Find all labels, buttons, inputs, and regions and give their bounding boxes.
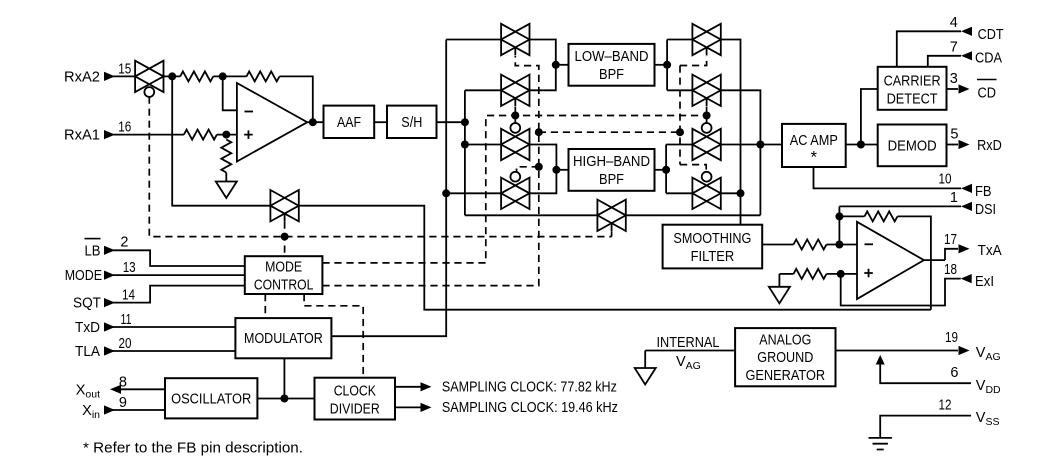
resistor R2 (op-amp U1 feedback) bbox=[247, 71, 280, 81]
wire loopback TxA output to RxA node bbox=[299, 206, 931, 310]
wire CDT (pin 4) bbox=[897, 31, 961, 67]
node SW3-in junction dot bbox=[461, 141, 469, 149]
svg-text:14: 14 bbox=[122, 288, 135, 304]
node HBin junction dot bbox=[552, 166, 560, 174]
wire R7 to U2 plus bbox=[827, 273, 858, 275]
ground G3 stem bbox=[644, 351, 646, 369]
wire to SW4 input bbox=[446, 192, 501, 194]
wire VDD (pin 6) bbox=[880, 362, 971, 383]
wire Xout (pin 8) bbox=[121, 388, 165, 390]
switch SWB (analog loopback) bbox=[270, 190, 298, 221]
pin MODE arrow (pin 13) bbox=[104, 271, 115, 280]
wire OSCILLATOR to CLOCK DIVIDER bbox=[257, 398, 314, 400]
pin Xout arrow bbox=[110, 385, 121, 394]
dashed wire control bus 2: MODE CONTROL to SW1/SW4/SW5/SW8 bbox=[322, 56, 538, 286]
ground G2 bbox=[769, 287, 790, 304]
pin RxD arrow bbox=[959, 140, 970, 149]
node U2minus junction dot bbox=[835, 241, 843, 249]
wire R4 to ground bbox=[225, 173, 227, 182]
wire Xin input bbox=[104, 409, 165, 411]
wire sampling clock 1 bbox=[395, 386, 421, 388]
node U1out junction dot bbox=[309, 118, 317, 126]
svg-text:INTERNAL: INTERNAL bbox=[657, 335, 720, 351]
svg-text:19: 19 bbox=[945, 330, 958, 346]
pin LB arrow (pin 2) bbox=[104, 246, 115, 255]
switch SW8 bbox=[692, 172, 720, 209]
node LBin junction dot bbox=[552, 61, 560, 69]
svg-text:CONTROL: CONTROL bbox=[254, 278, 314, 294]
svg-text:GENERATOR: GENERATOR bbox=[745, 368, 825, 384]
pin TxA arrow bbox=[959, 244, 970, 253]
wire DSI node down to U2 inverting input bbox=[838, 206, 840, 244]
switch SW7 bbox=[692, 123, 720, 160]
dashed wire SWA control to mode-control bus bbox=[149, 97, 611, 237]
svg-text:15: 15 bbox=[118, 62, 131, 78]
svg-text:7: 7 bbox=[950, 40, 958, 56]
node U2fb junction dot bbox=[835, 212, 843, 220]
svg-text:CDA: CDA bbox=[975, 51, 1002, 67]
wire LOW-BAND output node bbox=[655, 64, 668, 66]
switch SW9 (BPF bypass) bbox=[597, 200, 625, 231]
dashed branch bus2 east bbox=[539, 131, 680, 133]
wire CD (pin 3) bbox=[947, 88, 959, 90]
svg-text:20: 20 bbox=[119, 336, 132, 352]
dashed wire SW9 control stub bbox=[611, 231, 613, 236]
overline CD bbox=[977, 79, 997, 81]
wire bypass S/H to SW9 bbox=[465, 214, 598, 216]
dashed branch to SW8 bbox=[680, 165, 706, 172]
svg-text:DETECT: DETECT bbox=[887, 92, 938, 108]
node LBout junction dot bbox=[663, 61, 671, 69]
wire to SW3 input bbox=[465, 144, 501, 146]
svg-text:17: 17 bbox=[944, 232, 957, 248]
ground G4 (earth) bbox=[869, 438, 892, 450]
wire vertical x=446.2 (MODULATOR up to SW1 input, SW4 input) bbox=[331, 40, 446, 337]
node HBout junction dot bbox=[662, 166, 670, 174]
svg-text:DSI: DSI bbox=[975, 202, 996, 218]
svg-text:TLA: TLA bbox=[75, 344, 100, 360]
svg-text:DEMOD: DEMOD bbox=[888, 138, 937, 154]
wire up to CARRIER DETECT bbox=[861, 89, 878, 145]
op-amp U2 bbox=[857, 222, 924, 299]
wire LB input bbox=[104, 250, 245, 266]
svg-text:3: 3 bbox=[950, 71, 958, 87]
wire HBout to SW7/SW8 inputs bbox=[666, 145, 692, 194]
wire SW8 output bbox=[721, 192, 741, 194]
box MODULATOR bbox=[235, 318, 331, 358]
VDD up arrow bbox=[876, 355, 885, 365]
wire into LOW-BAND BPF bbox=[556, 64, 569, 66]
dashed wire MODE CONTROL to MODULATOR bbox=[264, 294, 266, 318]
svg-text:TxA: TxA bbox=[978, 243, 1002, 259]
node demod-in junction dot bbox=[857, 141, 865, 149]
node osc junction dot bbox=[280, 395, 288, 403]
svg-text:ANALOG: ANALOG bbox=[759, 333, 811, 349]
dashed stem SW2/SW3 bbox=[514, 107, 516, 125]
wire vertical x=464.9 (S/H node to SW2 input, SW3 input, bypass) bbox=[464, 90, 466, 215]
svg-text:RxD: RxD bbox=[977, 138, 1002, 154]
resistor R5 bbox=[794, 240, 827, 250]
svg-text:CDT: CDT bbox=[978, 27, 1004, 43]
dashed wire MODE CONTROL to CLOCK DIVIDER bbox=[304, 294, 363, 378]
svg-text:SAMPLING CLOCK: 77.82 kHz: SAMPLING CLOCK: 77.82 kHz bbox=[442, 380, 617, 396]
arrow sampling clock 2 bbox=[421, 403, 432, 412]
svg-text:12: 12 bbox=[939, 398, 952, 414]
svg-text:FB: FB bbox=[975, 184, 992, 200]
node SW8out junction dot bbox=[737, 189, 745, 197]
wire SW1 output to LOW-BAND input node bbox=[530, 40, 556, 91]
wire SW7 output to AC AMP bbox=[721, 144, 782, 146]
pin SQT arrow (pin 14) bbox=[104, 298, 115, 307]
dashed stem SW6/SW7 bbox=[706, 107, 708, 125]
dashed branch to SW5 bbox=[680, 56, 707, 66]
node SWB control dot bbox=[281, 233, 289, 241]
dashed branch to SW4 bbox=[517, 167, 539, 172]
node SW4-in junction dot bbox=[442, 189, 450, 197]
overline LB bbox=[85, 238, 101, 240]
svg-text:18: 18 bbox=[944, 262, 957, 278]
wire into HIGH-BAND BPF bbox=[556, 169, 568, 171]
svg-text:AC AMP: AC AMP bbox=[790, 133, 838, 149]
svg-text:GROUND: GROUND bbox=[757, 350, 813, 366]
dashed wire MODE CONTROL top / SWB control bbox=[284, 222, 286, 257]
svg-text:8: 8 bbox=[119, 374, 127, 390]
wire HIGH-BAND output node bbox=[655, 169, 667, 171]
wire sampling clock 2 bbox=[395, 406, 421, 408]
pin RxA1 arrow (pin 16) bbox=[104, 130, 115, 139]
svg-text:13: 13 bbox=[123, 260, 136, 276]
svg-text:CARRIER: CARRIER bbox=[884, 74, 941, 90]
svg-text:LB: LB bbox=[85, 243, 101, 259]
node SW2/SW3 control dot bbox=[511, 112, 519, 120]
svg-text:DIVIDER: DIVIDER bbox=[330, 402, 380, 418]
pin CD arrow bbox=[959, 84, 970, 93]
pin CDA arrow bbox=[961, 51, 972, 60]
svg-text:SQT: SQT bbox=[73, 296, 101, 312]
wire R2 to U1 output bbox=[280, 76, 313, 122]
svg-text:*: * bbox=[811, 149, 818, 167]
wire internal VAG to generator bbox=[645, 350, 735, 352]
wire feedback branch bbox=[839, 215, 864, 217]
ground G1 bbox=[216, 182, 237, 199]
svg-text:BPF: BPF bbox=[599, 172, 624, 188]
box S/H bbox=[387, 106, 437, 138]
svg-text:SMOOTHING: SMOOTHING bbox=[673, 231, 751, 247]
dashed control lines bbox=[149, 56, 706, 378]
box OSCILLATOR bbox=[165, 378, 257, 418]
node ACin junction dot bbox=[756, 141, 764, 149]
box MODE CONTROL bbox=[245, 256, 323, 294]
pin RxA2 arrow (pin 15) bbox=[104, 72, 115, 81]
svg-text:CD: CD bbox=[978, 86, 997, 102]
svg-text:4: 4 bbox=[950, 15, 958, 31]
svg-text:FILTER: FILTER bbox=[691, 249, 735, 265]
wire SWB to RxA2 node bbox=[172, 76, 270, 205]
wire AC AMP to DEMOD bbox=[846, 144, 878, 146]
node SW4 branch dot bbox=[535, 163, 543, 171]
svg-text:MODULATOR: MODULATOR bbox=[244, 331, 323, 347]
node SW5/SW8 control dot bbox=[676, 128, 684, 136]
wire ExI (pin 18) bbox=[841, 274, 961, 306]
wire U2 output bbox=[924, 259, 945, 261]
wire TxA (pin 17) bbox=[945, 249, 958, 260]
switch SW1 bbox=[501, 24, 529, 55]
svg-text:2: 2 bbox=[120, 234, 128, 250]
pin FB arrow bbox=[961, 184, 972, 193]
svg-text:RxA2: RxA2 bbox=[64, 69, 100, 85]
dashed vertical SW5/SW8 control bbox=[679, 66, 681, 165]
pin Xin arrow (pin 9) bbox=[104, 405, 115, 414]
wire LBout to SW5/SW6 inputs bbox=[667, 40, 692, 91]
svg-text:RxA1: RxA1 bbox=[64, 128, 100, 144]
wire node B down to U1 inverting input bbox=[223, 76, 237, 110]
dashed-net junction dots bbox=[281, 112, 711, 241]
pin CDT arrow bbox=[961, 27, 972, 36]
dashed wire control bus 1: MODE CONTROL to SW2/SW3/SW6/SW7 bbox=[322, 116, 706, 263]
box LOW-BAND BPF bbox=[569, 44, 655, 86]
box HIGH-BAND BPF bbox=[569, 149, 655, 191]
wire SW9 output to AC AMP line bbox=[626, 214, 761, 216]
wire R1 to node B bbox=[213, 75, 246, 77]
svg-text:5: 5 bbox=[950, 127, 958, 143]
node A junction dot bbox=[168, 72, 176, 80]
svg-text:ExI: ExI bbox=[975, 274, 994, 290]
svg-text:CLOCK: CLOCK bbox=[334, 384, 376, 400]
ground G2 stem bbox=[778, 274, 780, 287]
wire CDA (pin 7) bbox=[928, 56, 961, 67]
svg-text:MODE: MODE bbox=[65, 268, 103, 284]
wire S/H output to node D bbox=[437, 121, 465, 123]
svg-text:1: 1 bbox=[950, 190, 958, 206]
node bus2 east dot bbox=[535, 128, 543, 136]
wire DSI (pin 1) bbox=[839, 205, 961, 207]
wire TLA input bbox=[104, 350, 235, 352]
resistor R7 bbox=[794, 269, 827, 279]
ground G3 bbox=[635, 368, 656, 385]
wire SW3 output to HIGH-BAND input node bbox=[530, 145, 557, 194]
pin TxD arrow (pin 11) bbox=[104, 322, 115, 331]
box ANALOG GROUND GENERATOR bbox=[735, 328, 835, 386]
wire RxA1 input bbox=[104, 134, 184, 136]
pin TLA arrow (pin 20) bbox=[104, 346, 115, 355]
pin VAG arrow bbox=[959, 346, 970, 355]
wire to SW2 input bbox=[465, 89, 501, 91]
resistor R4 (to ground, vertical) bbox=[221, 140, 231, 173]
switch SW5 bbox=[692, 24, 720, 55]
node SW6/SW7 control dot bbox=[703, 112, 711, 120]
wire G2 to R7 bbox=[779, 273, 793, 275]
svg-text:* Refer to the FB pin descript: * Refer to the FB pin description. bbox=[83, 441, 303, 457]
svg-text:TxD: TxD bbox=[75, 320, 100, 336]
resistor R3 bbox=[184, 130, 217, 140]
switch SW2 bbox=[501, 75, 529, 106]
node U2plus junction dot bbox=[837, 270, 845, 278]
svg-text:BPF: BPF bbox=[599, 67, 624, 83]
resistor R1 bbox=[180, 71, 213, 81]
box CARRIER DETECT bbox=[878, 67, 947, 110]
node C junction dot bbox=[222, 131, 230, 139]
wire MODE input bbox=[104, 274, 245, 276]
wire RxA2 input bbox=[104, 75, 135, 77]
wire SWA output to node A bbox=[164, 75, 181, 77]
wire MODULATOR down to oscillator line bbox=[283, 358, 285, 398]
svg-text:16: 16 bbox=[118, 119, 131, 135]
wire VAG output (pin 19) bbox=[836, 350, 959, 352]
wire RxD (pin 5) bbox=[947, 144, 959, 146]
resistor R6 (U2 feedback) bbox=[865, 211, 898, 221]
svg-text:9: 9 bbox=[119, 395, 127, 411]
pin ExI arrow bbox=[961, 274, 972, 283]
pin DSI arrow bbox=[961, 202, 972, 211]
box AAF bbox=[324, 106, 375, 138]
svg-text:LOW–BAND: LOW–BAND bbox=[575, 49, 649, 65]
svg-text:10: 10 bbox=[939, 172, 952, 188]
wire to SW1 input bbox=[446, 39, 501, 41]
svg-text:AAF: AAF bbox=[337, 115, 361, 131]
svg-text:OSCILLATOR: OSCILLATOR bbox=[171, 391, 251, 407]
wire AAF to S/H bbox=[374, 121, 387, 123]
box CLOCK DIVIDER bbox=[315, 378, 396, 420]
wire R6 to output / loopback vertical bbox=[898, 216, 931, 309]
wire R3 to U1 non-inverting input bbox=[217, 134, 237, 136]
svg-text:S/H: S/H bbox=[401, 115, 422, 131]
switch SW3 bbox=[501, 123, 529, 160]
switch SWA (RxA2 input switch) bbox=[135, 61, 163, 97]
op-amp U1 bbox=[237, 83, 307, 162]
wire SQT input bbox=[104, 286, 245, 303]
box DEMOD bbox=[878, 125, 947, 167]
wire smoothing filter output bbox=[762, 244, 793, 246]
switch SW4 bbox=[501, 172, 529, 209]
node D junction dot bbox=[461, 118, 469, 126]
wire R5 to U2 minus bbox=[827, 244, 858, 246]
svg-text:11: 11 bbox=[121, 312, 132, 328]
switch SW6 bbox=[692, 75, 720, 106]
svg-text:MODE: MODE bbox=[265, 260, 302, 276]
wire SW5 output down to smoothing filter bbox=[721, 40, 741, 225]
wire U1 output to AAF bbox=[307, 121, 323, 123]
svg-text:SAMPLING CLOCK: 19.46 kHz: SAMPLING CLOCK: 19.46 kHz bbox=[442, 400, 618, 416]
svg-text:HIGH–BAND: HIGH–BAND bbox=[573, 154, 650, 170]
arrow sampling clock 1 bbox=[421, 382, 432, 391]
box AC AMP bbox=[782, 124, 846, 167]
wire VSS (pin 12) bbox=[880, 416, 971, 438]
box SMOOTHING FILTER bbox=[663, 225, 763, 269]
wire SW6 output down to AC AMP line bbox=[721, 90, 761, 215]
wire TxD input bbox=[104, 326, 235, 328]
node B junction dot bbox=[219, 72, 227, 80]
wire FB (pin 10) from AC AMP bbox=[814, 167, 962, 188]
svg-text:6: 6 bbox=[950, 365, 958, 381]
